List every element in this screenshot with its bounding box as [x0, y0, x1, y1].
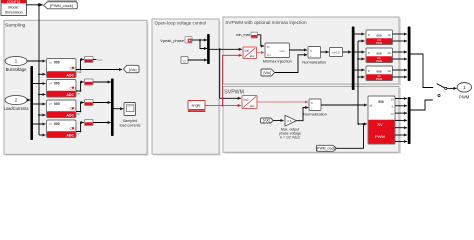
svg-text:5H: 5H — [391, 128, 394, 131]
svg-text:dq0: dq0 — [244, 48, 249, 52]
wire clock stub ePWM2 — [358, 58, 365, 60]
svg-text:Vpeak_phase: Vpeak_phase — [160, 38, 184, 43]
ePWM block 3 — [366, 66, 393, 81]
svg-text:abc: abc — [267, 53, 272, 57]
svg-text:0: 0 — [74, 67, 76, 71]
mux bar (pwm signals top) — [408, 27, 411, 82]
from tag [Vdc] (bottom area) — [261, 118, 274, 123]
svg-text:[Vdc]: [Vdc] — [129, 68, 137, 72]
wire ePWM2 out L — [393, 58, 407, 60]
wire trigger stub CH3 — [39, 134, 45, 136]
svg-text:SV: SV — [377, 122, 383, 127]
svg-text:abc: abc — [250, 54, 255, 58]
svg-text:Vdc: Vdc — [97, 58, 103, 62]
svg-text:D: D — [368, 69, 370, 73]
from tag [PWM_clock] — [317, 145, 337, 151]
goto tag [Vdc] — [124, 65, 140, 72]
svg-text:Open-loop voltage control: Open-loop voltage control — [155, 20, 207, 25]
wire ADC CH2 out via converter to mux — [76, 103, 84, 112]
wire bias to demux — [343, 51, 352, 53]
svg-text:μs: μs — [49, 122, 53, 126]
svg-text:Vdc: Vdc — [77, 70, 82, 74]
svg-text:qB: qB — [369, 104, 372, 108]
from tag [Vdc] (top area) — [261, 69, 275, 76]
wire trigger stub CH2 — [39, 114, 45, 116]
svg-text:min_max: min_max — [236, 33, 251, 37]
mux bar (sampled currents) — [111, 79, 114, 137]
wire mux bottom to switch input 2 — [410, 100, 433, 110]
gain 0.5 (max output phase voltage) — [279, 115, 301, 139]
svg-text:PWM: PWM — [459, 95, 470, 100]
svg-text:PWM: PWM — [376, 41, 382, 45]
svg-text:ADC: ADC — [66, 133, 74, 137]
demux bar (load currents) — [30, 66, 33, 140]
constant 0 — [181, 57, 188, 64]
wire mag to dq0 top (node) — [210, 48, 242, 50]
demux bar (duty cycles) — [352, 27, 355, 91]
angle generator block — [188, 101, 206, 112]
normalization block (bottom) — [303, 99, 327, 117]
wire clock stub ePWM1 — [358, 40, 365, 42]
scope Sampled load currents — [120, 103, 141, 128]
ePWM block 1 — [366, 30, 393, 45]
area Open-loop voltage control — [152, 19, 221, 156]
wire dq0 top out to minmax injection port2 — [257, 52, 265, 54]
wire PWM_clock tag to ePWM 6ch clock input — [336, 124, 363, 148]
svg-text:D: D — [368, 33, 370, 37]
mux bar (pwm signals bottom) — [408, 97, 411, 144]
inport 2 LoadCurrents — [4, 95, 29, 111]
wire demux to ADC CH1 — [33, 83, 45, 85]
wires ePWM 6ch outputs to mux — [395, 98, 407, 100]
svg-text:000: 000 — [54, 122, 60, 126]
wire trigger stub CH0 — [39, 73, 45, 75]
svg-text:000: 000 — [54, 81, 60, 85]
wire Vdc tag to normalization divide port — [275, 55, 307, 73]
svg-text:[PWM_clock]: [PWM_clock] — [50, 3, 73, 8]
wire demux to ADC CH2 — [33, 103, 45, 105]
svg-text:SVPWM: SVPWM — [224, 90, 244, 96]
wire normalization bottom to ePWM 6ch — [321, 104, 367, 106]
wire ADC CH3 out via converter to mux — [76, 123, 84, 132]
svg-text:000: 000 — [376, 33, 381, 37]
svg-text:ADC: ADC — [66, 73, 74, 77]
svg-text:μs: μs — [49, 102, 53, 106]
svg-text:[Vdc]: [Vdc] — [263, 71, 271, 75]
wire angle to dq0 bottom port2 (red) — [205, 105, 241, 107]
svg-text:0b: 0b — [267, 45, 270, 49]
svg-text:Normalization: Normalization — [303, 112, 327, 117]
svg-text:μs: μs — [49, 81, 53, 85]
svg-text:2H: 2H — [387, 51, 390, 55]
converter block row CH2 — [85, 100, 94, 106]
converter block row CH3 — [85, 120, 94, 126]
wire LoadCurrents to demux — [27, 99, 30, 101]
svg-text:μs: μs — [49, 60, 53, 64]
wire 0 to mux input 3 — [188, 59, 207, 61]
wire dq0 bottom out to normalization (highlighted) — [257, 101, 308, 103]
svg-text:dq0: dq0 — [243, 97, 248, 101]
normalization block (top) — [302, 47, 326, 65]
svg-text:load currents: load currents — [120, 123, 141, 127]
svg-text:abc: abc — [250, 104, 255, 108]
ePWM block 2 — [366, 48, 393, 63]
wire clock stub ePWM3 — [358, 76, 365, 78]
svg-text:000: 000 — [376, 69, 381, 73]
svg-text:PWM: PWM — [376, 77, 382, 81]
svg-text:PWM: PWM — [376, 59, 382, 63]
wire ADC CH0 out to junction and Vdc goto — [76, 69, 122, 71]
converter block row CH1 — [85, 79, 94, 85]
wire junction up to converter CH0 — [81, 60, 84, 70]
wire ADC CH1 out via converter to mux — [76, 82, 84, 91]
svg-text:Minmax injection: Minmax injection — [263, 58, 292, 63]
wire ePWM1 out H — [393, 33, 407, 35]
wire converter CH0 out stub with label — [93, 59, 97, 61]
wire trigger vertical from CONFIG junction — [38, 5, 40, 135]
svg-text:x: x — [310, 49, 312, 53]
wire BusVoltage to ADC CH0 — [27, 60, 45, 62]
wire ePWM3 out L — [393, 76, 407, 78]
svg-text:[Vdc]: [Vdc] — [263, 119, 270, 123]
converter block row CH0 — [85, 57, 94, 63]
svg-text:ADC: ADC — [66, 113, 74, 117]
svg-text:BusVoltage: BusVoltage — [6, 67, 27, 72]
wire mag branch down to dq0 bottom — [220, 49, 241, 98]
svg-text:LoadCurrents: LoadCurrents — [4, 106, 29, 111]
wire min_max to minmax injection port1 — [258, 35, 265, 46]
wire Vdc tag to gain — [273, 120, 283, 122]
svg-text:x: x — [311, 101, 313, 105]
svg-text:PWM: PWM — [375, 134, 385, 139]
ePWM block 6 channel (SV PWM) — [368, 96, 395, 144]
ADC block CH2 — [47, 100, 77, 118]
wire angle branch up to dq0 top port2 (red) — [222, 55, 241, 105]
constant min_max — [236, 32, 258, 38]
wire ePWM1 out L — [393, 40, 407, 42]
svg-text:3H: 3H — [391, 98, 394, 101]
wire trigger stub CH1 — [39, 94, 45, 96]
wire duty to ePWM1 — [354, 33, 364, 35]
wire duty to ePWM3 — [354, 69, 364, 71]
constant Vpeak_phase — [160, 37, 192, 44]
wire demux to ADC CH3 — [33, 123, 45, 125]
outport 1 PWM — [457, 83, 471, 100]
area SVPWM — [223, 87, 401, 154]
wire gain to normalization divide port — [297, 108, 309, 121]
svg-text:1: 1 — [74, 87, 76, 91]
svg-text:4H: 4H — [391, 113, 394, 116]
ADC block CH3 — [47, 120, 77, 138]
ADC block CH1 — [47, 80, 77, 98]
svg-text:000: 000 — [54, 61, 60, 65]
svg-text:angle: angle — [191, 104, 200, 108]
svg-text:ADC: ADC — [66, 93, 74, 97]
wire PWM clock distribution vertical — [357, 41, 359, 124]
svg-text:Sampling: Sampling — [5, 22, 26, 28]
wire branch to mux input 2 — [200, 40, 207, 49]
wire normalization to bias — [321, 51, 329, 53]
manual switch — [437, 84, 457, 97]
minmax injection block — [263, 43, 292, 63]
wire minmax injection to normalization — [290, 49, 308, 51]
svg-text:1H: 1H — [387, 33, 390, 37]
wire ePWM3 out H — [393, 69, 407, 71]
junction diamond on CONFIG wire — [37, 3, 41, 7]
svg-text:÷: ÷ — [311, 107, 313, 111]
wire ePWM2 out H — [393, 51, 407, 53]
svg-text:000: 000 — [378, 100, 384, 104]
svg-text:u+0.5: u+0.5 — [332, 51, 340, 55]
area SVPWM with optional minmax injection — [223, 17, 401, 86]
bias block u+0.5 — [330, 48, 343, 57]
wire duty to ePWM2 — [354, 51, 364, 53]
CONFIG block (Mode: Simulation) — [1, 0, 27, 16]
ADC block CH0 — [47, 59, 77, 78]
svg-text:0.5: 0.5 — [287, 119, 292, 123]
wire mux to scope — [113, 108, 123, 110]
mux bar (open-loop reference) — [207, 34, 210, 64]
svg-text:D: D — [368, 51, 370, 55]
svg-text:000: 000 — [376, 51, 381, 55]
svg-text:CONFIG: CONFIG — [7, 0, 21, 4]
svg-text:÷: ÷ — [310, 54, 312, 58]
goto tag [PWM_clock] — [44, 0, 78, 9]
svg-text:Simulation: Simulation — [5, 10, 23, 15]
dq0 to abc block (bottom) — [242, 96, 257, 109]
wire mux top to switch input 1 — [410, 54, 433, 88]
svg-text:3H: 3H — [387, 69, 390, 73]
dq0 to abc block (top) — [243, 47, 257, 59]
wire clock into ePWM 6ch — [358, 123, 367, 125]
svg-text:[PWM_clock]: [PWM_clock] — [317, 147, 336, 151]
area Sampling — [4, 20, 149, 156]
inport 1 BusVoltage — [5, 56, 27, 72]
svg-text:SVPWM with optional minmax inj: SVPWM with optional minmax injection — [225, 20, 307, 25]
wire CONFIG to PWM_clock goto — [27, 4, 43, 6]
wire Vpeak_phase to mux — [192, 39, 207, 41]
svg-text:⅓u²: ⅓u² — [280, 49, 285, 53]
svg-text:2: 2 — [74, 107, 76, 111]
svg-text:000: 000 — [54, 102, 60, 106]
svg-text:3: 3 — [74, 127, 76, 131]
svg-text:Normalization: Normalization — [302, 59, 326, 64]
svg-text:k = 1/2 Vdc2: k = 1/2 Vdc2 — [280, 135, 300, 139]
